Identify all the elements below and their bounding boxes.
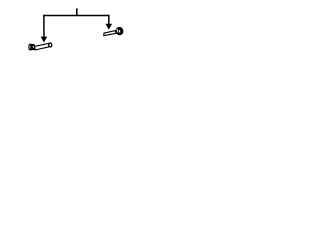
wire: right vertical drop xyxy=(108,15,110,24)
screw S2 head (filled) xyxy=(115,26,125,36)
screw S1 (left, head on left) xyxy=(28,43,52,51)
screw S2 head left highlight xyxy=(116,29,118,33)
wire: horizontal bracket line xyxy=(43,15,109,17)
stem tick at top center xyxy=(76,8,78,15)
screw S2 (right, head on right) xyxy=(104,26,125,36)
screw S1 head slot notch xyxy=(32,46,34,48)
screw S1 head face highlight xyxy=(29,45,31,48)
arrowhead left xyxy=(41,37,48,43)
wire: left vertical drop xyxy=(43,15,45,37)
arrowhead right xyxy=(106,24,113,30)
screw S1 head rounded left face xyxy=(28,44,31,51)
screw S1 tip cap xyxy=(48,43,52,48)
screw S1 shaft tube xyxy=(35,43,50,50)
screw S2 shaft tube xyxy=(104,31,116,36)
screw S1 head block xyxy=(30,44,36,51)
screw S2 head slot highlight xyxy=(118,30,120,32)
